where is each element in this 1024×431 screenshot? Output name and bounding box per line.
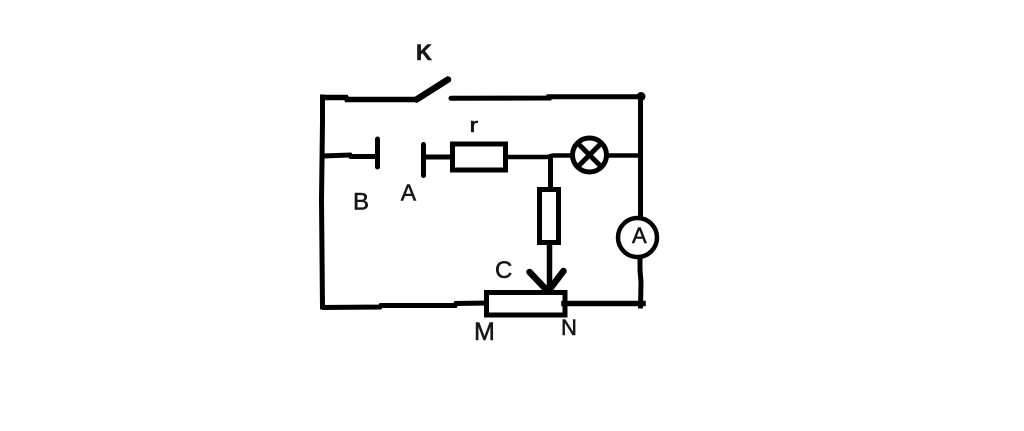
svg-text:M: M bbox=[474, 318, 495, 346]
junction dot (top-right corner node) bbox=[637, 92, 646, 101]
wire: resistor r to lamp bbox=[505, 156, 572, 158]
wire: left vertical to terminal B bbox=[322, 155, 375, 157]
terminal plate B bbox=[375, 139, 380, 167]
wiper arrow shaft bbox=[547, 242, 553, 287]
wire: terminal A to resistor r bbox=[425, 155, 456, 160]
resistor r bbox=[453, 144, 506, 170]
svg-text:K: K bbox=[416, 40, 432, 65]
wire: bottom-right (potentiometer N to right corner) bbox=[564, 301, 643, 307]
svg-text:N: N bbox=[561, 315, 577, 340]
ammeter A bbox=[618, 218, 657, 257]
wire: lamp to right vertical bbox=[607, 153, 641, 158]
svg-text:C: C bbox=[495, 257, 512, 284]
lamp (circle with X) bbox=[573, 138, 607, 172]
svg-text:A: A bbox=[401, 180, 417, 206]
wiper arrowhead bbox=[530, 271, 564, 292]
potentiometer MN bbox=[487, 293, 566, 316]
svg-text:B: B bbox=[353, 189, 369, 216]
svg-text:A: A bbox=[632, 223, 647, 248]
wire: top-right horizontal segment (switch to corner) bbox=[451, 97, 642, 99]
terminal plate A bbox=[421, 145, 426, 176]
svg-text:r: r bbox=[470, 114, 479, 136]
vertical resistor (slider arm) bbox=[540, 190, 559, 243]
switch K blade bbox=[417, 80, 449, 100]
wire: right vertical (ammeter to bottom corner) bbox=[640, 258, 641, 309]
wire: top-left horizontal segment (to switch pivot) bbox=[320, 98, 418, 100]
wire: left vertical branch bbox=[322, 97, 323, 307]
wire: junction drop to vertical resistor bbox=[548, 157, 553, 191]
wire: right vertical (corner to ammeter) bbox=[638, 97, 643, 218]
wire: bottom-left (left vertical to potentiometer M) bbox=[322, 303, 488, 308]
